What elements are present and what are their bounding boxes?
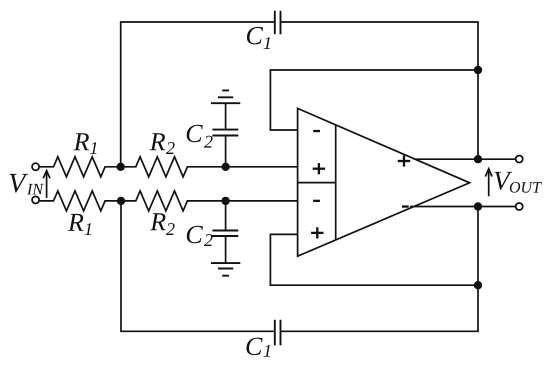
svg-text:2: 2 (204, 132, 213, 152)
svg-text:1: 1 (90, 138, 99, 158)
svg-text:R: R (149, 207, 166, 236)
svg-text:2: 2 (204, 230, 213, 250)
svg-text:1: 1 (84, 219, 93, 239)
svg-text:R: R (149, 127, 166, 156)
svg-text:C: C (185, 220, 203, 249)
svg-text:1: 1 (263, 33, 272, 53)
svg-text:C: C (245, 332, 263, 361)
svg-text:OUT: OUT (509, 180, 542, 197)
svg-text:V: V (8, 168, 28, 199)
svg-text:C: C (246, 21, 264, 50)
svg-text:IN: IN (26, 181, 44, 198)
svg-text:R: R (73, 127, 90, 156)
svg-text:2: 2 (166, 219, 175, 239)
svg-text:2: 2 (166, 138, 175, 158)
svg-text:R: R (67, 208, 84, 237)
svg-text:1: 1 (263, 341, 272, 361)
svg-text:C: C (185, 119, 203, 148)
